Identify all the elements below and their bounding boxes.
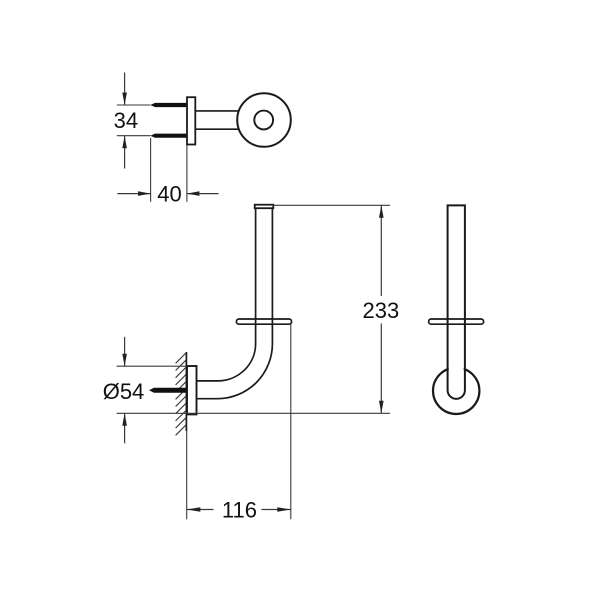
dim 34: arrow down [122,93,127,106]
dim Ø54: arrow up [122,413,127,426]
dim Ø54: witness line top [117,365,187,367]
svg-text:116: 116 [222,498,257,523]
svg-text:34: 34 [114,108,138,133]
svg-text:40: 40 [157,182,181,207]
dim 40: witness line right [186,145,188,202]
dim 233: arrow down [379,401,384,414]
dim Ø54: dimension line upper segment [124,337,126,366]
dim 34: witness line top [117,104,151,106]
dim 233: witness line top [273,204,390,206]
dim 116: witness line right (from disc) [290,324,292,519]
arm lower line (top view) [195,128,241,130]
wall hatching [176,353,187,436]
dim 34: dimension line lower segment [124,136,126,169]
tube with rounded bottom (side view) [448,205,465,398]
holder outer circle (top view) [237,93,291,147]
screw bottom (top view) [150,134,188,138]
wall plate (front view) [187,366,197,414]
tube inner contour (front view): left vertical, inner bend, top of horizontal arm [197,205,256,381]
dim 233: dimension line lower segment [380,324,382,414]
dim 116: arrow right [277,507,291,512]
dim 34: arrow up [122,136,127,149]
dim 233: dimension line upper segment [380,205,382,296]
dim 34: witness line bottom [117,135,151,137]
dim 116: witness line left (below wall) [186,431,188,519]
holder inner circle (top view) [254,111,273,130]
arm upper line (top view) [195,110,241,112]
dim 40: arrow left [187,191,200,196]
screw top (top view) [150,103,188,107]
dim 116: arrow left [187,507,201,512]
svg-text:Ø54: Ø54 [103,379,145,404]
dim 116: dimension line left segment [187,509,214,511]
spare-roll disc (front view) [236,319,291,324]
dim 40: witness line left [150,138,152,202]
dim 40: dimension line left segment [117,193,150,195]
white mask hiding circle arc behind tube [449,362,464,389]
dim 40: arrow right [138,191,151,196]
witness line long bottom (shared 233 / Ø54 / 116) [117,412,391,414]
wall plate (top view) [187,97,195,144]
tube top cap (front view) [255,205,274,209]
wall rosette circle (side view) [433,368,479,414]
dim 34: dimension line upper segment [124,73,126,106]
svg-text:233: 233 [363,298,400,323]
wall line (front view) [185,352,187,431]
dim 116: dimension line right segment [262,509,291,511]
dim Ø54: arrow down [122,354,127,367]
tube outer contour (front view): right vertical, outer bend, bottom of horizontal arm [197,205,273,399]
dim 233: arrow up [379,205,384,218]
dim 40: dimension line right segment [187,193,219,195]
screw (front view) [149,388,189,393]
dim Ø54: dimension line lower segment [124,413,126,443]
spare-roll disc (side view) [429,319,484,324]
